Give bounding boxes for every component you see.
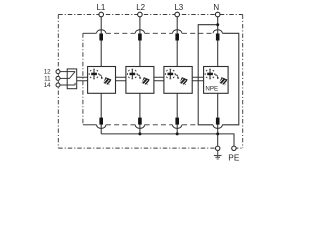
svg-text:L2: L2 [136,3,145,12]
PE bus wire [101,134,234,148]
terminal L1 [99,12,104,17]
junction dot bus col4 [216,132,219,135]
mechanical link line bottom [83,124,97,126]
svg-text:L1: L1 [96,3,105,12]
svg-text:14: 14 [44,82,51,89]
enclosure border bottom (dash-dot) [58,147,242,149]
arrester module 3 box [164,67,192,94]
thermal disconnector N bottom [213,118,222,129]
svg-text:PE: PE [228,152,240,162]
wire module 3 bottom to PE bus [176,93,178,134]
wire earth terminal drop [217,134,219,148]
arrester module 4 internals [205,69,227,85]
terminal PE [232,146,236,150]
wire L2 terminal to module 2 [139,17,141,67]
thermal disconnector L2 top [135,30,144,41]
remote contact wire 12 [60,71,75,73]
arrester module 2 internals [128,69,150,85]
enclosure border right (dash-dot) [242,15,244,149]
wire link loop, right of NPE module [222,33,238,125]
svg-text:N: N [213,3,219,12]
junction dot bus col2 [138,132,141,135]
terminal L3 [175,12,180,17]
earth terminal [216,146,220,150]
wire N bypass, left of NPE module [198,25,218,125]
terminal 12 [56,70,60,74]
terminal N [215,12,220,17]
enclosure border top (dash-dot) [58,14,242,16]
wire module 1 bottom to PE bus [100,93,102,134]
wire module 2 bottom to PE bus [139,93,141,134]
remote contact switch lever [70,72,76,79]
wire N terminal to module 4 [217,17,219,67]
mechanical link line top [83,32,97,34]
wire L3 terminal to module 3 [176,17,178,67]
thermal disconnector L3 bottom [173,118,182,129]
inter-module bus line upper [77,76,204,78]
thermal disconnector N top [213,30,222,41]
mechanical link vertical (dash-dot) [82,33,84,125]
arrester module 2 box [126,67,154,94]
thermal disconnector L1 bottom [97,118,106,129]
thermal disconnector L3 top [173,30,182,41]
svg-text:NPE: NPE [205,86,218,93]
wire module 4 bottom to PE bus [217,93,219,134]
terminal 11 [56,76,60,80]
arrester module 1 internals [89,69,111,85]
svg-text:L3: L3 [174,3,183,12]
terminal L2 [138,12,143,17]
arrester module 4 (N-PE) box [204,67,229,94]
enclosure border left (dash-dot) [57,15,59,149]
ground symbol [214,151,222,159]
arrester module 1 box [88,67,116,94]
remote contact wire 14 [60,83,75,85]
thermal disconnector L1 top [97,30,106,41]
remote contact wire 11 [60,77,70,79]
junction dot bus col3 [176,132,179,135]
remote signalling contact box [67,69,77,89]
inter-module bus line lower [77,80,204,82]
thermal disconnector L2 bottom [135,118,144,129]
arrester module 3 internals [166,69,188,85]
wire L1 terminal to module 1 [100,17,102,67]
terminal 14 [56,83,60,87]
junction dot N [216,23,219,26]
